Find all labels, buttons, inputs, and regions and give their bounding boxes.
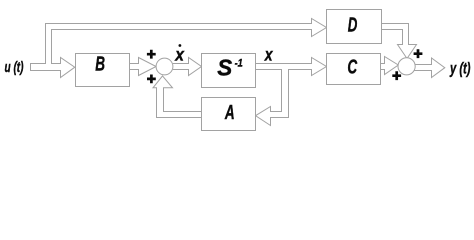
svg-text:-1: -1 bbox=[235, 58, 243, 70]
svg-text:B: B bbox=[95, 54, 105, 76]
svg-text:u (t): u (t) bbox=[5, 59, 24, 76]
wire: arrow from summing junction 1 to S^-1 (xdot) bbox=[173, 58, 202, 76]
svg-text:x: x bbox=[174, 44, 185, 64]
block S^-1 integrator bbox=[202, 54, 256, 88]
plus sign at summing junction 1 lower input bbox=[147, 75, 156, 84]
plus sign at summing junction 2 left input bbox=[392, 71, 401, 80]
wire: arrow from C to summing junction 2 bbox=[381, 57, 399, 75]
plus sign at summing junction 1 upper input bbox=[147, 50, 156, 59]
svg-text:A: A bbox=[224, 102, 234, 124]
wire: arrow from B to summing junction 1 bbox=[130, 58, 157, 76]
wire: feedback from A up into bottom of summing junction 1 bbox=[153, 76, 202, 118]
svg-text:x: x bbox=[264, 45, 274, 65]
svg-text:S: S bbox=[217, 55, 232, 81]
block B bbox=[76, 54, 130, 87]
block C bbox=[327, 54, 381, 85]
summing junction 1 bbox=[156, 58, 173, 75]
wire: D output channel turning down into top of summing junction 2 bbox=[382, 24, 417, 59]
wire: output arrow from summing junction 2 to y(t) bbox=[414, 58, 445, 78]
plus sign at summing junction 2 top input bbox=[414, 49, 423, 58]
wire: input u(t) block arrow with upward branch, top channel and arrowhead into D bbox=[31, 19, 327, 78]
block D bbox=[327, 10, 382, 44]
svg-text:y (t): y (t) bbox=[449, 60, 470, 77]
dot of xdot bbox=[179, 44, 182, 47]
block A bbox=[202, 98, 256, 131]
svg-text:D: D bbox=[348, 15, 358, 37]
wire: x output of S^-1 into C with downward branch and arrowhead into A bbox=[256, 58, 327, 126]
summing junction 2 bbox=[398, 58, 415, 75]
svg-text:C: C bbox=[347, 57, 357, 79]
